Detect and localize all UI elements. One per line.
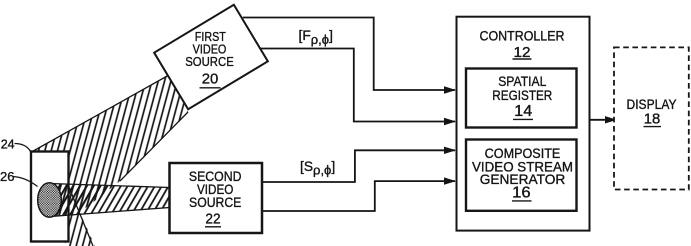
- svg-text:18: 18: [644, 111, 661, 128]
- svg-text:24: 24: [1, 137, 15, 151]
- svg-text:26: 26: [0, 169, 14, 184]
- svg-text:REGISTER: REGISTER: [492, 87, 552, 103]
- svg-text:14: 14: [514, 103, 532, 120]
- svg-text:22: 22: [205, 210, 220, 227]
- svg-text:SOURCE: SOURCE: [185, 54, 234, 69]
- svg-text:SOURCE: SOURCE: [189, 194, 241, 210]
- svg-text:16: 16: [512, 185, 531, 202]
- svg-text:CONTROLLER: CONTROLLER: [480, 27, 565, 43]
- svg-text:20: 20: [202, 71, 219, 88]
- svg-text:12: 12: [514, 44, 531, 61]
